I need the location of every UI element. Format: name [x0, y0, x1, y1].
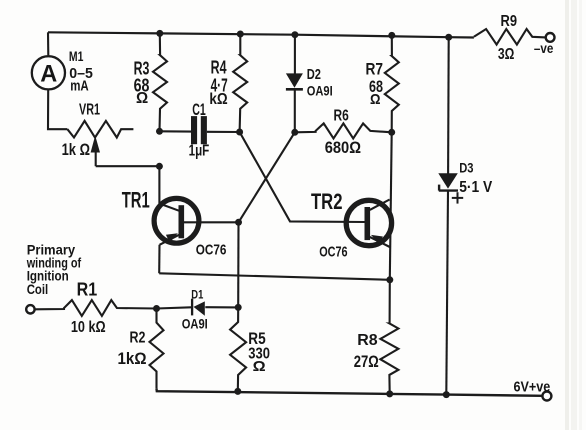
- junction: R3 / C1 / TR1 collector node: [156, 128, 163, 135]
- label R9: [501, 13, 518, 30]
- resistor R7: [385, 35, 399, 132]
- label D1: [191, 289, 203, 301]
- svg-text:OC76: OC76: [319, 244, 347, 261]
- svg-text:A: A: [40, 61, 57, 88]
- svg-text:R1: R1: [77, 280, 98, 300]
- junction: TR1 base node: [235, 219, 242, 226]
- label 0-5: [69, 65, 93, 82]
- label 1kohm R2: [118, 350, 147, 368]
- label ohm R7: [370, 91, 381, 108]
- label R2: [130, 330, 146, 347]
- svg-text:–ve: –ve: [534, 41, 554, 56]
- label VR1: [79, 102, 100, 119]
- junction: top rail / R3: [156, 30, 163, 37]
- terminal: primary winding input: [26, 305, 34, 313]
- label D2: [307, 66, 321, 83]
- junction: VR1 wiper / TR1 collector: [156, 163, 163, 170]
- label ohm R3: [136, 90, 148, 107]
- junction: R6 / R7 / TR2 collector node: [388, 129, 395, 136]
- label OC76 TR2: [319, 244, 347, 261]
- svg-text:M1: M1: [69, 48, 84, 64]
- svg-text:R4: R4: [211, 57, 227, 77]
- label 68 R7: [369, 77, 383, 96]
- label 1uF: [189, 142, 210, 159]
- wire: D2/R6 node to TR1 base: [239, 132, 295, 222]
- wire: top rail to zener D3: [447, 37, 450, 173]
- svg-text:R8: R8: [357, 332, 378, 349]
- label Ignition: [27, 267, 69, 283]
- resistor R4: [233, 34, 247, 132]
- label + polarity: [452, 192, 463, 203]
- svg-text:680Ω: 680Ω: [325, 138, 361, 157]
- label R1: [77, 280, 98, 300]
- label kohm R4: [209, 91, 227, 108]
- svg-text:Ω: Ω: [253, 358, 266, 375]
- label R5: [248, 330, 265, 348]
- svg-text:C1: C1: [192, 101, 206, 119]
- resistor R2: [150, 309, 164, 389]
- label R4: [211, 57, 227, 77]
- junction: R4 / C1 / TR2 base node: [236, 129, 243, 136]
- junction: R1 / R2 / D1 node: [153, 305, 160, 312]
- wire: common emitter rail: [159, 273, 390, 280]
- terminal -ve: [546, 33, 555, 42]
- label C1: [192, 101, 206, 119]
- label R7: [366, 59, 384, 78]
- zener diode D3: [438, 173, 458, 394]
- svg-text:Ω: Ω: [370, 91, 381, 108]
- svg-text:1k Ω: 1k Ω: [62, 140, 90, 159]
- svg-text:D1: D1: [191, 289, 203, 301]
- wire: M1 to VR1: [48, 89, 67, 129]
- wire: wiper node to TR1 collector: [158, 166, 160, 203]
- svg-text:R6: R6: [334, 108, 350, 125]
- label -ve: [534, 41, 554, 56]
- junction: bottom rail / R8: [386, 390, 393, 397]
- svg-text:D3: D3: [459, 160, 474, 175]
- svg-text:6V+ve: 6V+ve: [514, 380, 551, 396]
- resistor R8: [380, 280, 398, 394]
- resistor R9: [474, 29, 546, 45]
- svg-text:1μF: 1μF: [189, 142, 210, 159]
- svg-text:27Ω: 27Ω: [354, 353, 379, 371]
- label OC76 TR1: [196, 242, 227, 259]
- junction: top rail / R4: [237, 31, 244, 38]
- junction: emitter rail / R8 node: [386, 276, 393, 283]
- svg-text:Ω: Ω: [136, 90, 148, 107]
- wire: VR1 wiper to TR1 collector node: [96, 165, 160, 167]
- label 6V+ve: [514, 380, 551, 396]
- label 4.7: [211, 76, 228, 96]
- diode D1: [157, 299, 239, 316]
- resistor R6: [295, 123, 392, 138]
- svg-text:D2: D2: [307, 66, 321, 83]
- label 68 R3: [134, 76, 150, 96]
- junction: bottom rail / R5: [234, 388, 241, 395]
- svg-text:Coil: Coil: [27, 281, 49, 297]
- label TR1: [122, 188, 150, 213]
- label mA: [70, 77, 89, 94]
- label R8: [357, 332, 378, 349]
- svg-text:10 kΩ: 10 kΩ: [71, 319, 106, 336]
- wire: C1/R4 node to TR2 base: [240, 132, 365, 222]
- label R3: [134, 58, 150, 78]
- label winding of: [26, 254, 82, 270]
- potentiometer VR1: [67, 121, 133, 166]
- svg-text:OC76: OC76: [196, 242, 227, 259]
- label 680: [325, 138, 361, 157]
- junction: top rail / D2: [291, 31, 298, 38]
- svg-text:OA9I: OA9I: [307, 83, 333, 99]
- svg-text:mA: mA: [70, 77, 89, 94]
- label Coil: [27, 281, 49, 297]
- label M1: [69, 48, 84, 64]
- resistor R5: [230, 307, 246, 391]
- svg-text:R7: R7: [366, 59, 384, 78]
- svg-text:OA9I: OA9I: [182, 315, 208, 331]
- ammeter M1: [32, 32, 65, 89]
- label TR2: [311, 189, 343, 214]
- wire: TR1 emitter down: [158, 245, 160, 273]
- label ohm R5: [253, 358, 266, 375]
- junction: D1 / R5 / TR1 base branch node: [235, 304, 242, 311]
- terminal 6V+ve: [542, 392, 551, 401]
- transistor TR1: [154, 198, 238, 244]
- svg-text:R2: R2: [130, 330, 146, 347]
- label 27ohm: [354, 353, 379, 371]
- label OA91 D1: [182, 315, 208, 331]
- svg-text:TR1: TR1: [122, 188, 150, 213]
- svg-text:TR2: TR2: [311, 189, 343, 214]
- svg-text:R9: R9: [501, 13, 518, 30]
- svg-text:kΩ: kΩ: [209, 91, 227, 108]
- wire: bottom 6V+ve supply rail: [157, 389, 543, 396]
- capacitor C1: [160, 116, 240, 144]
- junction: top rail / D3: [445, 34, 452, 41]
- svg-text:5·1 V: 5·1 V: [459, 179, 493, 196]
- label OA91 D2: [307, 83, 333, 99]
- junction: D2 / R6 / TR1 base node: [291, 129, 298, 136]
- label 5.1V: [459, 179, 493, 196]
- resistor R1: [35, 300, 157, 316]
- label 10k: [71, 319, 106, 336]
- svg-text:1kΩ: 1kΩ: [118, 350, 147, 368]
- junction: top rail / R7: [388, 32, 395, 39]
- label R6: [334, 108, 350, 125]
- label 3ohm: [498, 46, 515, 63]
- resistor R3: [153, 33, 167, 131]
- svg-text:VR1: VR1: [79, 102, 100, 119]
- wire: TR1 base node down to D1 node: [237, 222, 239, 307]
- label D3: [459, 160, 474, 175]
- wire: top -ve supply rail: [48, 32, 474, 37]
- label 1k ohm: [62, 140, 90, 159]
- label Primary: [27, 242, 76, 258]
- transistor TR2: [346, 200, 391, 248]
- junction: bottom rail / D3: [443, 391, 450, 398]
- wire: R7 node down through TR2 to emitter node: [390, 132, 392, 279]
- label 330: [248, 346, 270, 363]
- diode D2: [286, 35, 303, 133]
- svg-text:3Ω: 3Ω: [498, 46, 515, 63]
